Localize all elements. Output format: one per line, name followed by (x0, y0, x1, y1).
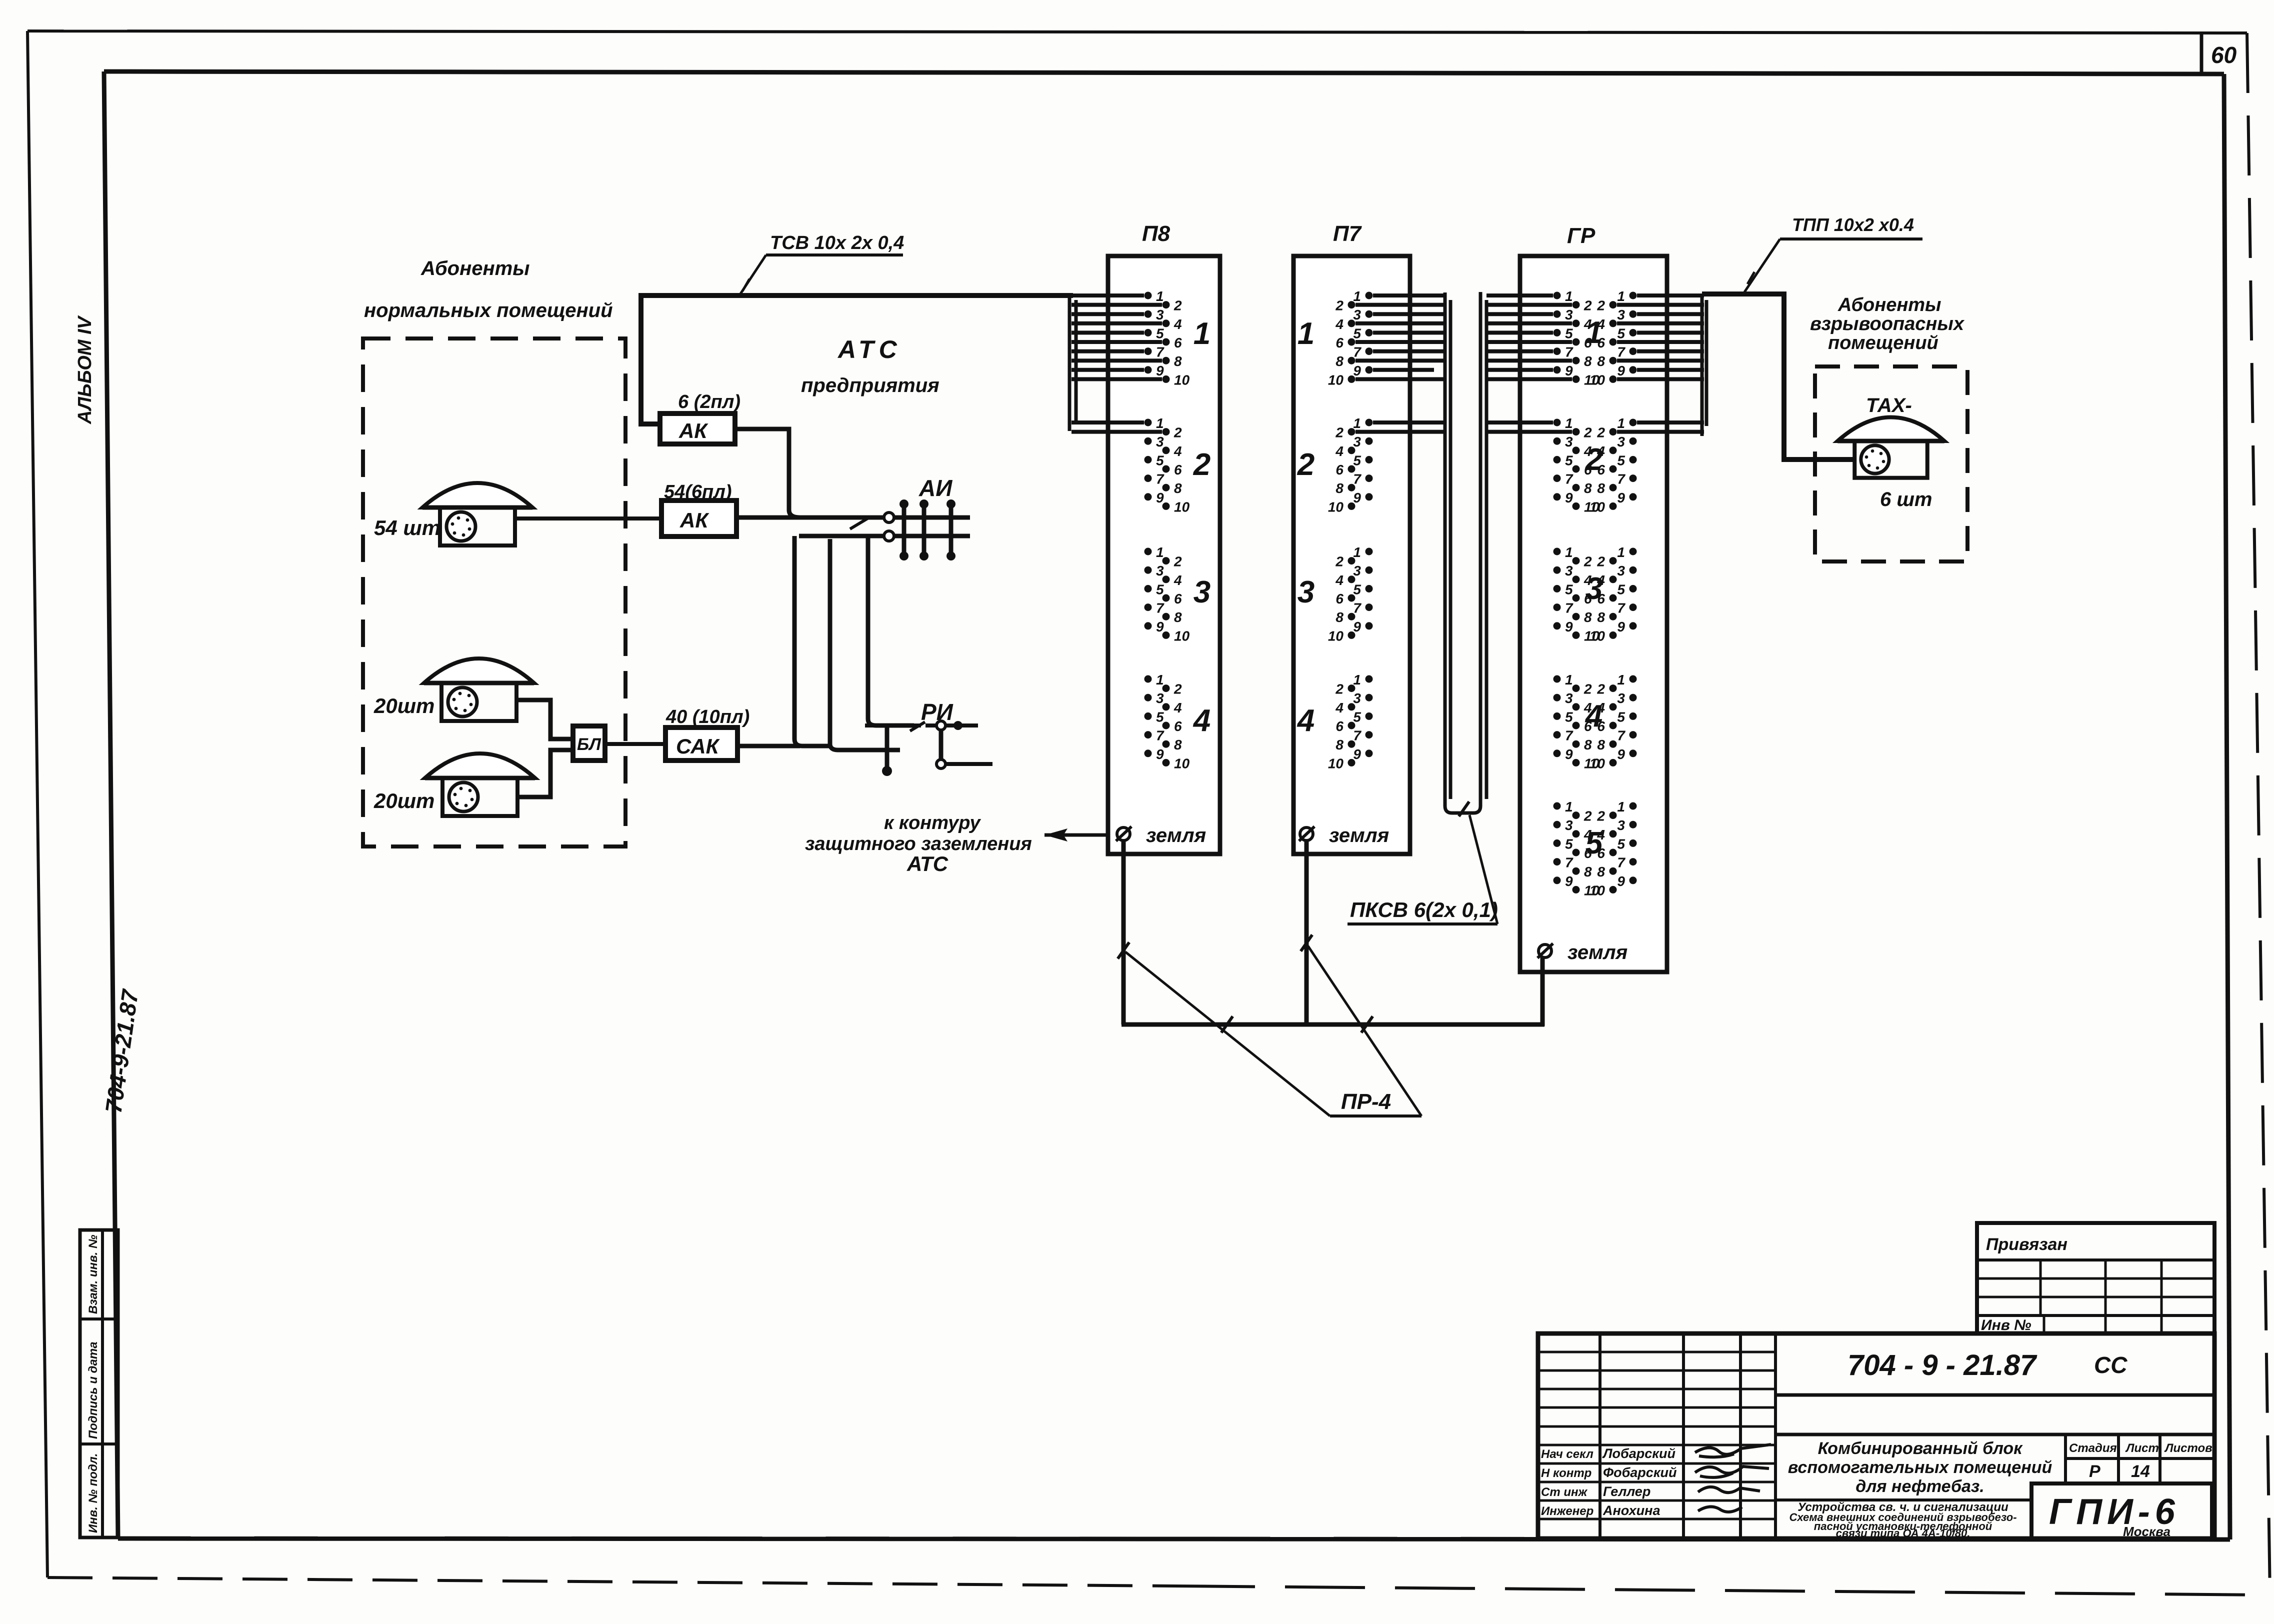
svg-text:ПКСВ 6(2х 0,1): ПКСВ 6(2х 0,1) (1350, 898, 1498, 921)
svg-text:60: 60 (2211, 42, 2237, 68)
svg-text:9: 9 (1353, 363, 1361, 378)
svg-text:4: 4 (1584, 699, 1602, 733)
svg-text:8: 8 (1335, 480, 1343, 496)
svg-text:4: 4 (1335, 700, 1343, 715)
svg-text:8: 8 (1584, 864, 1592, 879)
svg-text:2: 2 (1173, 298, 1182, 313)
svg-text:2: 2 (1583, 298, 1592, 313)
svg-text:3: 3 (1565, 307, 1573, 322)
svg-text:1: 1 (1193, 316, 1210, 351)
svg-text:9: 9 (1617, 490, 1625, 505)
svg-text:9: 9 (1617, 746, 1625, 762)
svg-text:10: 10 (1589, 882, 1605, 898)
svg-text:защитного заземления: защитного заземления (805, 833, 1032, 854)
svg-text:2: 2 (1596, 808, 1605, 824)
svg-text:3: 3 (1156, 434, 1164, 449)
svg-text:Подпись и дата: Подпись и дата (86, 1341, 100, 1439)
svg-text:10: 10 (1589, 499, 1605, 514)
svg-text:1: 1 (1156, 415, 1164, 431)
svg-text:2: 2 (1335, 554, 1343, 569)
svg-text:9: 9 (1156, 363, 1164, 378)
svg-text:1: 1 (1156, 544, 1164, 560)
svg-text:Взам. инв. №: Взам. инв. № (86, 1234, 100, 1314)
cable П7 to ГР (ПКСВ) (1445, 292, 1486, 816)
svg-text:7: 7 (1617, 471, 1625, 487)
svg-text:Инв. № подл.: Инв. № подл. (86, 1453, 100, 1533)
svg-text:1: 1 (1617, 288, 1625, 304)
selector РИ unit 1 (865, 722, 925, 776)
svg-text:10: 10 (1174, 372, 1190, 387)
svg-text:9: 9 (1617, 873, 1625, 889)
node: subscribers of normal rooms (dashed enclosure) (363, 338, 625, 846)
svg-text:7: 7 (1565, 855, 1573, 870)
svg-text:Стадия: Стадия (2069, 1441, 2117, 1455)
svg-text:5: 5 (1617, 325, 1625, 341)
svg-text:5: 5 (1565, 452, 1573, 468)
svg-text:земля: земля (1146, 824, 1206, 846)
svg-text:6 (2пл): 6 (2пл) (678, 391, 740, 412)
svg-text:3: 3 (1617, 307, 1625, 322)
svg-text:2: 2 (1585, 442, 1602, 477)
svg-text:1: 1 (1617, 415, 1625, 431)
svg-text:1: 1 (1585, 315, 1602, 350)
svg-text:Инженер: Инженер (1541, 1504, 1593, 1518)
svg-text:2: 2 (1335, 681, 1343, 697)
svg-text:1: 1 (1156, 288, 1164, 304)
svg-text:ГР: ГР (1567, 223, 1595, 248)
svg-text:2: 2 (1173, 425, 1182, 440)
svg-text:Инв №: Инв № (1981, 1317, 2031, 1333)
svg-text:6: 6 (1174, 335, 1182, 350)
cable fan out of ГР (1617, 294, 1706, 436)
svg-text:8: 8 (1584, 480, 1592, 496)
svg-text:ТСВ 10х 2х 0,4: ТСВ 10х 2х 0,4 (770, 232, 904, 253)
telephone set 54 шт (422, 483, 532, 545)
svg-text:9: 9 (1353, 619, 1361, 634)
svg-text:10: 10 (1328, 372, 1344, 387)
svg-text:6: 6 (1174, 591, 1182, 606)
svg-text:1: 1 (1297, 316, 1314, 351)
svg-text:20шт: 20шт (373, 789, 434, 812)
cable fan into ГР (1486, 295, 1572, 432)
svg-text:4: 4 (1335, 443, 1343, 459)
svg-text:Нач секл: Нач секл (1541, 1447, 1593, 1461)
selector РИ unit 2 (925, 721, 992, 768)
wire: phone1 to АК (515, 516, 661, 520)
svg-text:АТС: АТС (837, 335, 902, 363)
svg-text:9: 9 (1565, 490, 1573, 505)
svg-text:9: 9 (1156, 619, 1164, 634)
selector АИ brushes (902, 504, 906, 556)
svg-text:Лобарский: Лобарский (1602, 1446, 1675, 1461)
wire: trunk down to РИ (2) (830, 539, 900, 750)
svg-text:1: 1 (1353, 544, 1361, 560)
svg-text:АК: АК (678, 419, 708, 442)
svg-text:1: 1 (1353, 672, 1361, 687)
svg-text:Лист: Лист (2125, 1441, 2159, 1455)
svg-text:1: 1 (1565, 415, 1573, 431)
wire: earth arrow (1044, 833, 1116, 837)
svg-text:7: 7 (1617, 344, 1625, 360)
svg-text:БЛ: БЛ (577, 735, 601, 754)
svg-text:9: 9 (1565, 363, 1573, 378)
svg-text:3: 3 (1353, 690, 1361, 706)
svg-text:2: 2 (1173, 554, 1182, 569)
svg-text:2: 2 (1583, 808, 1592, 824)
wire: САК output (737, 744, 800, 748)
terminal block ГР (1520, 256, 1667, 972)
svg-text:3: 3 (1156, 690, 1164, 706)
svg-text:14: 14 (2131, 1462, 2150, 1481)
svg-text:вспомогательных помещений: вспомогательных помещений (1788, 1458, 2052, 1477)
svg-text:3: 3 (1297, 575, 1314, 609)
svg-text:Ст инж: Ст инж (1541, 1485, 1587, 1499)
svg-text:7: 7 (1353, 728, 1361, 743)
svg-text:Москва: Москва (2123, 1524, 2170, 1539)
wire: phone3 to БЛ (517, 750, 573, 797)
cable fan out of П7 (1355, 295, 1445, 432)
svg-text:10: 10 (1174, 628, 1190, 643)
svg-text:3: 3 (1617, 817, 1625, 833)
svg-text:10: 10 (1589, 372, 1605, 387)
block САК (665, 727, 737, 760)
svg-text:6: 6 (1335, 462, 1343, 477)
svg-text:5: 5 (1353, 452, 1361, 468)
svg-text:6: 6 (1335, 591, 1343, 606)
wire: trunk down to РИ (1) (794, 536, 831, 746)
svg-text:Листов: Листов (2164, 1441, 2212, 1455)
svg-text:9: 9 (1617, 363, 1625, 378)
svg-text:П7: П7 (1333, 221, 1362, 246)
svg-text:54(6пл): 54(6пл) (664, 481, 732, 502)
selector АИ field line 1 (736, 515, 970, 520)
svg-text:2: 2 (1193, 447, 1210, 482)
wire: trunk down to РИ (3) (868, 537, 914, 725)
wire БЛ to САК (605, 742, 665, 746)
svg-text:8: 8 (1597, 737, 1605, 752)
svg-text:4: 4 (1335, 316, 1343, 332)
svg-text:помещений: помещений (1828, 332, 1938, 353)
wire: trunk АТС to П8 (641, 295, 1073, 424)
svg-text:5: 5 (1353, 581, 1361, 597)
telephone ТАХ (1837, 417, 1944, 477)
svg-text:8: 8 (1174, 353, 1182, 369)
svg-text:7: 7 (1565, 471, 1573, 487)
svg-text:2: 2 (1583, 554, 1592, 569)
svg-text:9: 9 (1156, 490, 1164, 505)
svg-text:8: 8 (1597, 353, 1605, 369)
svg-text:4: 4 (1192, 703, 1210, 738)
svg-text:6: 6 (1335, 335, 1343, 350)
svg-text:3: 3 (1353, 434, 1361, 449)
svg-text:Абоненты: Абоненты (420, 257, 529, 279)
svg-text:Р: Р (2089, 1462, 2100, 1481)
svg-text:2: 2 (1335, 298, 1343, 313)
svg-text:земля: земля (1567, 941, 1627, 963)
terminal block П7 (1293, 256, 1410, 854)
svg-text:10: 10 (1174, 755, 1190, 771)
svg-text:10: 10 (1589, 628, 1605, 643)
svg-text:Фобарский: Фобарский (1603, 1465, 1677, 1480)
svg-text:9: 9 (1565, 746, 1573, 762)
П8 earth terminal (1117, 827, 1130, 840)
svg-text:Анохина: Анохина (1602, 1503, 1660, 1518)
ГР earth terminal (1538, 944, 1551, 957)
svg-text:7: 7 (1156, 728, 1164, 743)
svg-text:6: 6 (1174, 718, 1182, 734)
svg-text:1: 1 (1617, 544, 1625, 560)
svg-text:1: 1 (1565, 672, 1573, 687)
svg-text:8: 8 (1174, 737, 1182, 752)
margin table (80, 1230, 118, 1537)
svg-text:Н контр: Н контр (1541, 1466, 1591, 1480)
svg-text:3: 3 (1565, 563, 1573, 578)
svg-text:СС: СС (2094, 1352, 2127, 1378)
svg-text:Привязан: Привязан (1986, 1235, 2067, 1254)
block БЛ (573, 726, 605, 760)
svg-text:4: 4 (1173, 572, 1182, 588)
svg-text:АЛЬБОМ IV: АЛЬБОМ IV (74, 315, 95, 424)
svg-text:1: 1 (1353, 415, 1361, 431)
svg-text:5: 5 (1156, 581, 1164, 597)
svg-text:2: 2 (1596, 681, 1605, 697)
svg-text:для нефтебаз.: для нефтебаз. (1855, 1477, 1984, 1496)
svg-text:5: 5 (1565, 836, 1573, 851)
svg-text:54 шт: 54 шт (374, 516, 440, 539)
svg-text:5: 5 (1156, 325, 1164, 341)
svg-text:взрывоопасных: взрывоопасных (1810, 313, 1965, 334)
svg-text:связи типа ОА 4А-10/80.: связи типа ОА 4А-10/80. (1836, 1527, 1970, 1539)
П7 earth terminal (1300, 827, 1313, 840)
svg-text:к контуру: к контуру (884, 812, 981, 833)
svg-text:3: 3 (1193, 575, 1210, 609)
svg-text:9: 9 (1353, 746, 1361, 762)
svg-text:8: 8 (1597, 609, 1605, 625)
svg-text:3: 3 (1353, 563, 1361, 578)
svg-text:8: 8 (1335, 609, 1343, 625)
svg-text:7: 7 (1353, 344, 1361, 360)
svg-text:7: 7 (1617, 855, 1625, 870)
svg-text:3: 3 (1617, 690, 1625, 706)
svg-text:7: 7 (1565, 600, 1573, 616)
svg-text:7: 7 (1353, 471, 1361, 487)
svg-text:8: 8 (1584, 353, 1592, 369)
svg-text:3: 3 (1565, 434, 1573, 449)
svg-text:4: 4 (1173, 700, 1182, 715)
svg-text:П8: П8 (1142, 221, 1170, 246)
block АК (6 лин.) (660, 413, 735, 444)
svg-text:АТС: АТС (906, 852, 948, 875)
svg-text:10: 10 (1589, 755, 1605, 771)
svg-text:1: 1 (1353, 288, 1361, 304)
svg-text:8: 8 (1584, 609, 1592, 625)
svg-text:10: 10 (1328, 499, 1344, 514)
wire: П7 earth down (1304, 840, 1309, 1024)
svg-text:7: 7 (1565, 344, 1573, 360)
svg-text:9: 9 (1565, 873, 1573, 889)
sheet number 60 (2200, 33, 2203, 74)
svg-text:10: 10 (1328, 628, 1344, 643)
signatures (1695, 1444, 1771, 1457)
svg-text:7: 7 (1156, 344, 1164, 360)
svg-text:5: 5 (1617, 581, 1625, 597)
svg-text:2: 2 (1297, 447, 1314, 482)
svg-text:2: 2 (1173, 681, 1182, 697)
svg-text:3: 3 (1585, 571, 1602, 606)
svg-text:5: 5 (1617, 452, 1625, 468)
wire: АК1 output down to line (735, 429, 800, 517)
svg-text:10: 10 (1174, 499, 1190, 514)
svg-text:4: 4 (1173, 316, 1182, 332)
svg-text:4: 4 (1335, 572, 1343, 588)
svg-text:8: 8 (1174, 480, 1182, 496)
svg-text:7: 7 (1156, 600, 1164, 616)
svg-text:7: 7 (1617, 600, 1625, 616)
terminal block П8 (1108, 256, 1220, 854)
svg-text:8: 8 (1335, 353, 1343, 369)
svg-text:4: 4 (1296, 703, 1314, 738)
block АК (54 лин.) (661, 500, 736, 536)
svg-text:5: 5 (1585, 826, 1603, 860)
svg-text:20шт: 20шт (373, 694, 434, 717)
svg-text:3: 3 (1565, 690, 1573, 706)
svg-text:4: 4 (1173, 443, 1182, 459)
svg-text:2: 2 (1596, 554, 1605, 569)
svg-text:7: 7 (1565, 728, 1573, 743)
svg-text:5: 5 (1353, 325, 1361, 341)
svg-text:5: 5 (1565, 709, 1573, 724)
title: attachment box Привязан (1977, 1223, 2214, 1333)
svg-text:9: 9 (1156, 746, 1164, 762)
svg-text:5: 5 (1565, 325, 1573, 341)
svg-text:3: 3 (1617, 434, 1625, 449)
svg-text:1: 1 (1565, 288, 1573, 304)
wire: П8 earth down (1121, 840, 1126, 1024)
selector АИ field line 2 (799, 534, 970, 538)
svg-text:7: 7 (1617, 728, 1625, 743)
svg-text:5: 5 (1156, 452, 1164, 468)
node: subscribers of hazardous rooms (dashed enclosure) (1815, 366, 1967, 561)
wire: ТПП cable to ТАХ phone (1702, 294, 1856, 459)
svg-text:6: 6 (1174, 462, 1182, 477)
svg-text:8: 8 (1584, 737, 1592, 752)
svg-text:8: 8 (1597, 480, 1605, 496)
svg-text:1: 1 (1617, 672, 1625, 687)
svg-text:3: 3 (1617, 563, 1625, 578)
svg-text:3: 3 (1565, 817, 1573, 833)
svg-text:9: 9 (1617, 619, 1625, 634)
svg-text:2: 2 (1335, 425, 1343, 440)
svg-text:9: 9 (1565, 619, 1573, 634)
svg-text:7: 7 (1156, 471, 1164, 487)
svg-text:САК: САК (676, 734, 720, 758)
svg-text:3: 3 (1156, 563, 1164, 578)
svg-text:1: 1 (1565, 799, 1573, 814)
svg-text:АИ: АИ (918, 475, 952, 501)
telephone set 20 шт (lower) (425, 753, 535, 816)
svg-text:2: 2 (1583, 681, 1592, 697)
svg-text:5: 5 (1617, 836, 1625, 851)
svg-text:6 шт: 6 шт (1880, 488, 1932, 510)
title: organization ГПИ-6 (2031, 1483, 2212, 1538)
svg-text:8: 8 (1597, 864, 1605, 879)
svg-text:1: 1 (1617, 799, 1625, 814)
svg-text:8: 8 (1174, 609, 1182, 625)
telephone set 20 шт (upper) (424, 658, 534, 721)
svg-text:5: 5 (1156, 709, 1164, 724)
svg-text:нормальных помещений: нормальных помещений (364, 299, 613, 321)
svg-text:5: 5 (1617, 709, 1625, 724)
svg-text:5: 5 (1565, 581, 1573, 597)
svg-text:2: 2 (1583, 425, 1592, 440)
cable fan into П8 (1069, 294, 1162, 432)
title block (1538, 1333, 2214, 1538)
svg-text:8: 8 (1335, 737, 1343, 752)
svg-text:1: 1 (1565, 544, 1573, 560)
svg-text:5: 5 (1353, 709, 1361, 724)
svg-text:2: 2 (1596, 298, 1605, 313)
svg-text:7: 7 (1353, 600, 1361, 616)
svg-text:Абоненты: Абоненты (1837, 294, 1941, 315)
svg-text:2: 2 (1596, 425, 1605, 440)
svg-text:АК: АК (679, 508, 709, 532)
svg-text:ПР-4: ПР-4 (1341, 1089, 1391, 1114)
svg-text:3: 3 (1353, 307, 1361, 322)
wire: ГР earth down (1540, 957, 1545, 1026)
svg-text:ТАХ-: ТАХ- (1866, 394, 1912, 416)
svg-text:1: 1 (1156, 672, 1164, 687)
svg-text:40 (10пл): 40 (10пл) (665, 706, 749, 727)
svg-text:3: 3 (1156, 307, 1164, 322)
svg-text:10: 10 (1328, 755, 1344, 771)
svg-text:6: 6 (1335, 718, 1343, 734)
svg-text:Геллер: Геллер (1603, 1484, 1650, 1499)
selector АИ wiper (850, 517, 870, 529)
svg-text:земля: земля (1329, 824, 1389, 846)
svg-text:Комбинированный блок: Комбинированный блок (1818, 1439, 2023, 1458)
wire: earth bus (1121, 1022, 1544, 1027)
svg-text:ТПП 10х2 х0.4: ТПП 10х2 х0.4 (1792, 214, 1914, 235)
wire: phone2 to БЛ (516, 700, 573, 739)
svg-text:предприятия: предприятия (801, 374, 939, 396)
svg-text:704 - 9 - 21.87: 704 - 9 - 21.87 (1847, 1349, 2037, 1381)
svg-text:9: 9 (1353, 490, 1361, 505)
